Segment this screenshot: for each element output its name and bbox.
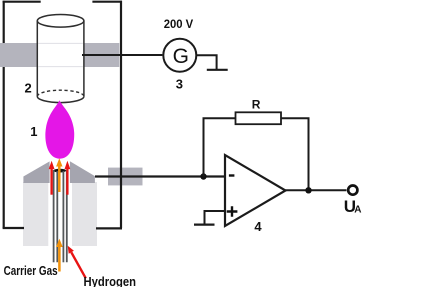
wire chamber right wall to burner [96,227,122,229]
ground bar at op-amp [194,224,215,226]
svg-text:1: 1 [30,124,37,139]
output junction node [305,187,311,193]
svg-text:4: 4 [254,219,262,234]
non-inverting input plus sign [227,206,238,217]
jet tube inner wall right [62,171,64,262]
burner body white channel around tubes [48,182,72,246]
insulator band left of cylinder [0,43,37,67]
generator circle (3) [163,39,196,72]
svg-text:A: A [354,204,361,215]
feedback wire right leg [281,118,309,190]
carrier gas arrow below burner [58,246,61,272]
cylinder bottom front arc [37,96,84,102]
jet tube outer wall left [53,170,55,262]
carrier gas orange arrow (into flame) [58,166,61,193]
chamber top wall left segment [3,1,41,3]
faint band edges seen through cylinder [38,43,83,66]
svg-text:R: R [252,98,261,112]
wire chamber left wall to burner [3,227,24,229]
nozzle opening ellipse [54,169,67,173]
ground bar at generator [207,69,228,71]
insulator feedthrough block at right wall [108,168,143,186]
wire generator to ground [196,55,216,69]
svg-text:Carrier Gas: Carrier Gas [4,263,58,278]
cylinder body walls [37,21,84,97]
insulator band right of cylinder [85,43,120,67]
op-amp triangle (4) [225,155,286,226]
chamber left wall [3,1,5,228]
node junction at inverting input [200,173,206,179]
hydrogen feed red arrow [71,252,86,278]
hydrogen red arrow right (into flame) [66,168,68,195]
wire non-inverting input to ground [205,211,226,225]
svg-text:3: 3 [176,76,183,91]
burner nozzle cone right slope [70,161,95,183]
svg-text:200 V: 200 V [164,17,194,31]
wire burner to op-amp inverting input [95,175,225,177]
svg-text:Hydrogen: Hydrogen [84,275,137,287]
burner body [23,182,97,246]
feedback resistor R [236,112,282,124]
wire cylinder to generator [82,54,162,56]
collector electrode cylinder (2) top ellipse [37,14,84,27]
chamber top wall right segment [92,1,122,3]
output terminal circle [348,186,357,195]
svg-text:2: 2 [25,80,32,95]
output wire [286,189,347,191]
chamber right wall [120,1,122,228]
feedback wire left leg [204,118,236,176]
inverting input minus sign [229,174,235,176]
cylinder bottom back arc (dashed) [37,90,84,96]
svg-text:G: G [173,45,189,68]
jet tube inner wall left [56,171,58,262]
cylinder interior fill [38,26,83,96]
jet tube outer wall right [66,170,68,262]
hydrogen red arrow left (into flame) [50,168,52,195]
burner nozzle cone left slope [23,161,49,183]
flame (1) [45,100,74,159]
